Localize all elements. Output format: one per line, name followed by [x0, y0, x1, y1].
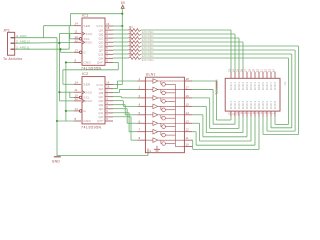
- IC1 pin QD (3): [98, 38, 113, 44]
- svg-text:220 Ohm: 220 Ohm: [142, 55, 154, 58]
- wire IC2 QD to ULN in4: [113, 101, 137, 107]
- display top pin 16: [241, 69, 244, 79]
- ULN1 common rail: [175, 84, 184, 146]
- svg-text:16: 16: [241, 69, 244, 73]
- svg-text:6: 6: [106, 50, 108, 54]
- display top pin 23: [269, 69, 272, 79]
- display internal name col 9 top: [261, 82, 265, 91]
- svg-text:23: 23: [269, 69, 272, 73]
- IC2 pin QA (15): [99, 85, 113, 91]
- svg-text:R4: R4: [129, 37, 133, 41]
- display top pin 19: [253, 69, 256, 79]
- ULN1 driver 7 (pins 7/12): [137, 128, 192, 137]
- svg-text:14: 14: [75, 22, 79, 26]
- IC1 pin QB (1): [99, 30, 113, 36]
- resistor R2: [129, 29, 154, 38]
- wire 5V drop: [69, 14, 71, 26]
- svg-text:12: 12: [229, 112, 232, 116]
- wire ARD11 vertical: [68, 26, 70, 50]
- display right grey pin name: [283, 81, 287, 85]
- IC2 pin G (13): [74, 107, 86, 113]
- svg-text:9: 9: [106, 117, 108, 121]
- wire ULN1 out4 to display: [192, 106, 243, 132]
- wire GND from JP1 pin3: [15, 37, 57, 39]
- wire IC1 QH to R8: [113, 57, 129, 59]
- display top pin 15: [237, 69, 240, 79]
- ic box IC1: [82, 18, 105, 65]
- display internal name col 8 bottom: [257, 100, 261, 109]
- junction: [56, 120, 58, 122]
- display internal name col 5 top: [245, 82, 249, 91]
- svg-text:20: 20: [257, 69, 260, 73]
- ULN1 driver 8 (pins 8/11): [137, 136, 192, 145]
- wire column 3 to display top: [141, 38, 239, 72]
- svg-text:220 Ohm: 220 Ohm: [142, 39, 154, 42]
- IC1 pin QF (5): [99, 46, 113, 52]
- svg-text:To Arduino: To Arduino: [3, 57, 22, 61]
- wire IC2 QH to ULN in8: [113, 117, 137, 140]
- wire IC2 VCC: [113, 84, 122, 86]
- svg-text:14: 14: [186, 111, 190, 115]
- ULN1 internal ground glyph: [154, 146, 160, 151]
- IC2 pin QB (1): [99, 89, 113, 95]
- wire column 1 to display top: [141, 30, 231, 72]
- IC1 pin QE (4): [99, 42, 113, 48]
- connector JP1 pin blade 2: [11, 42, 15, 44]
- svg-text:2: 2: [106, 93, 108, 97]
- wire IC1 QG to R7: [113, 53, 129, 55]
- svg-text:8: 8: [75, 58, 77, 62]
- svg-text:14: 14: [233, 69, 236, 73]
- display internal name col 2 top: [233, 82, 237, 91]
- svg-text:R4C8: R4C8: [273, 82, 277, 91]
- display internal name col 5 bottom: [245, 100, 249, 109]
- display internal name col 6 bottom: [249, 100, 253, 109]
- ULN1 driver 3 (pins 3/16): [137, 94, 192, 103]
- pin number 3: [16, 34, 18, 38]
- svg-text:7: 7: [106, 54, 108, 58]
- wire IC2 RCK: [59, 100, 74, 102]
- svg-text:24: 24: [273, 69, 276, 73]
- svg-text:3: 3: [106, 97, 108, 101]
- wire IC2 QG to ULN in7: [113, 113, 137, 132]
- svg-text:R7: R7: [129, 49, 133, 53]
- svg-text:11: 11: [233, 112, 236, 115]
- display internal name col 8 top: [257, 82, 261, 91]
- svg-text:21: 21: [261, 69, 264, 73]
- label IC2: [82, 72, 88, 76]
- svg-text:220 Ohm: 220 Ohm: [142, 59, 154, 62]
- pin number 2: [16, 39, 18, 43]
- IC1 pin QA (15): [99, 26, 113, 32]
- IC2 pin QG (6): [98, 109, 113, 115]
- svg-text:G: G: [83, 51, 86, 55]
- svg-text:9: 9: [106, 58, 108, 62]
- svg-text:18: 18: [249, 69, 252, 73]
- IC2 pin QH (7): [98, 113, 113, 119]
- display top pin 13: [229, 69, 232, 79]
- IC1 pin SER (14): [74, 22, 91, 28]
- display internal name col 4 top: [241, 82, 245, 91]
- wire G1 tap vertical: [60, 49, 62, 52]
- svg-text:220 Ohm: 220 Ohm: [142, 47, 154, 50]
- svg-text:220 Ohm: 220 Ohm: [142, 31, 154, 34]
- wire stub vertical x43: [43, 26, 45, 38]
- ULN1 pin COM (10): [184, 143, 192, 147]
- svg-text:IC1: IC1: [82, 13, 88, 17]
- svg-text:TC2088H: TC2088H: [215, 79, 219, 95]
- label display name: [215, 79, 219, 95]
- node ARD13 label: [20, 39, 30, 43]
- label ULN1: [146, 73, 156, 77]
- junction: [58, 91, 60, 93]
- wire ARD11 from JP1 pin1: [15, 48, 69, 50]
- svg-text:R3: R3: [129, 33, 133, 37]
- IC1 pin QG (6): [98, 50, 113, 56]
- display internal name col 7 bottom: [253, 100, 257, 109]
- IC1 pin QH (7): [98, 54, 113, 60]
- wire to IC1 SCK: [59, 33, 74, 35]
- svg-text:SCK: SCK: [85, 90, 93, 94]
- value 74LS595N IC2: [81, 125, 102, 129]
- svg-text:1: 1: [106, 30, 108, 34]
- IC1 pin GND (8): [74, 58, 92, 64]
- wire IC1 QA to R1: [113, 29, 129, 31]
- svg-text:1: 1: [106, 89, 108, 93]
- IC1 pin G (13): [74, 48, 86, 54]
- IC1 pin SCK (11): [74, 30, 93, 36]
- display bottom pin 8: [245, 111, 248, 117]
- IC2 pin GND (8): [74, 117, 92, 123]
- wire to IC1 G: [61, 51, 75, 53]
- display internal name col 3 bottom: [237, 100, 241, 109]
- wire ULN1 out8 to display: [192, 117, 259, 150]
- wire ULN1 out1 to display: [192, 81, 231, 120]
- display internal name col 3 top: [237, 82, 241, 91]
- wire SCL1 branch: [70, 34, 74, 39]
- node ARD11 label: [20, 45, 30, 49]
- svg-text:12: 12: [186, 128, 190, 132]
- svg-text:4: 4: [139, 102, 141, 106]
- display internal name col 11 top: [269, 82, 273, 91]
- display top pin 20: [257, 69, 260, 79]
- resistor R1: [129, 25, 154, 34]
- display bottom pin 3: [265, 111, 268, 117]
- svg-text:220 Ohm: 220 Ohm: [142, 35, 154, 38]
- ULN1 driver 1 (pins 1/18): [137, 77, 192, 86]
- svg-text:JP1: JP1: [3, 28, 10, 32]
- wire SCL2 branch: [70, 92, 74, 97]
- display internal name col 6 top: [249, 82, 253, 91]
- display internal name col 1 bottom: [229, 100, 233, 109]
- display bottom pin 12: [229, 111, 232, 117]
- ULN1 driver 4 (pins 4/15): [137, 102, 192, 111]
- svg-text:15: 15: [106, 85, 110, 89]
- wire 5V stem: [121, 8, 123, 84]
- svg-text:2: 2: [106, 34, 108, 38]
- svg-text:16: 16: [186, 94, 190, 98]
- connector JP1 outline: [8, 32, 15, 55]
- wire GND to ULN pin9: [57, 153, 148, 156]
- label JP1: [3, 28, 10, 32]
- svg-text:VA: VA: [283, 81, 287, 85]
- wire IC1 QH* cascade: [63, 62, 118, 84]
- IC2 pin VCC (16): [96, 81, 113, 87]
- junction: [65, 110, 67, 112]
- connector JP1 pin blade 1: [11, 48, 15, 50]
- wire ULN1 out7 to display: [192, 117, 255, 145]
- svg-text:7: 7: [139, 128, 141, 132]
- IC2 pin QH* (9): [97, 117, 113, 123]
- svg-text:IC2: IC2: [82, 72, 88, 76]
- wire column 7 wrap to display bottom: [141, 54, 292, 128]
- svg-text:RCK: RCK: [85, 99, 93, 103]
- svg-text:2: 2: [139, 85, 141, 89]
- display bottom pin 5: [257, 111, 260, 117]
- display internal name col 12 top: [273, 82, 277, 91]
- svg-text:22: 22: [265, 69, 268, 73]
- wire column 6 wrap to display bottom: [141, 50, 295, 131]
- svg-text:6: 6: [106, 109, 108, 113]
- wire ARD13 from JP1 pin2 to IC1 RCK: [15, 42, 74, 45]
- IC2 pin QE (4): [99, 101, 113, 107]
- label IC1: [82, 13, 88, 17]
- svg-text:SER: SER: [83, 24, 91, 28]
- display internal name col 10 bottom: [265, 100, 269, 109]
- wire column 5 wrap to display bottom: [141, 46, 298, 135]
- svg-text:4: 4: [106, 101, 108, 105]
- wire 5V top corridor: [70, 13, 122, 15]
- display bottom pin 10: [237, 111, 240, 117]
- svg-text:19: 19: [253, 69, 256, 73]
- svg-text:4: 4: [106, 42, 108, 46]
- svg-text:ULN1: ULN1: [146, 73, 156, 77]
- svg-text:7: 7: [106, 113, 108, 117]
- display internal name col 11 bottom: [269, 100, 273, 109]
- resistor R3: [129, 33, 154, 42]
- IC1 pin RCK (12): [74, 38, 93, 44]
- junction: [58, 42, 60, 44]
- display bottom pin 1: [273, 111, 276, 117]
- svg-text:GND: GND: [83, 61, 91, 65]
- wire IC2 SCK: [59, 91, 74, 93]
- svg-text:QH*: QH*: [97, 61, 104, 65]
- svg-text:74LS595N: 74LS595N: [81, 125, 102, 129]
- svg-text:74LS595N: 74LS595N: [81, 67, 102, 71]
- display bottom pin 4: [261, 111, 264, 117]
- display internal name col 2 bottom: [233, 100, 237, 109]
- wire IC1 QC to R3: [113, 37, 129, 39]
- svg-text:GND: GND: [83, 119, 91, 123]
- svg-text:13: 13: [229, 69, 232, 73]
- wire clock vertical: [58, 34, 60, 101]
- display top pin 17: [245, 69, 248, 79]
- svg-text:SCK: SCK: [85, 32, 93, 36]
- svg-text:5V: 5V: [121, 1, 126, 5]
- wire IC2 G: [66, 110, 74, 112]
- display top pin 22: [265, 69, 268, 79]
- display bottom pin 6: [253, 111, 256, 117]
- IC2 pin SCK (11): [74, 88, 93, 94]
- svg-text:17: 17: [186, 85, 190, 89]
- wire IC2 QB to ULN in2: [113, 89, 137, 92]
- IC1 pin QH* (9): [97, 58, 113, 64]
- wire column 8 wrap to display bottom: [141, 58, 289, 124]
- pin number 1: [16, 45, 18, 49]
- wire IC2 QA to ULN in1: [113, 81, 137, 89]
- wire IC1 QE to R5: [113, 45, 129, 47]
- svg-text:10: 10: [237, 112, 240, 116]
- display internal name col 1 top: [229, 82, 233, 91]
- svg-text:16: 16: [106, 81, 110, 85]
- value 74LS595N IC1: [81, 67, 102, 71]
- wire IC2 GND pin: [57, 120, 74, 122]
- svg-text:R5: R5: [129, 41, 133, 45]
- resistor R4: [129, 37, 154, 46]
- svg-text:3: 3: [106, 38, 108, 42]
- display bottom pin 9: [241, 111, 244, 117]
- junction: [121, 13, 123, 15]
- svg-text:11: 11: [75, 30, 78, 34]
- wire IC2 QC to ULN in3: [113, 97, 137, 98]
- resistor R8: [129, 53, 154, 62]
- svg-text:RCK: RCK: [85, 41, 93, 45]
- IC1 pin SCL (10): [74, 35, 90, 41]
- IC2 pin QC (2): [98, 93, 113, 99]
- wire IC2 QF to ULN in6: [113, 109, 137, 124]
- junction: [65, 61, 67, 63]
- display internal name col 9 bottom: [261, 100, 265, 109]
- ULN1 driver 6 (pins 6/13): [137, 119, 192, 128]
- wire GND vertical rail: [56, 38, 58, 157]
- wire IC1 QB to R2: [113, 33, 129, 35]
- svg-text:QH*: QH*: [97, 119, 104, 123]
- svg-text:8: 8: [139, 136, 141, 140]
- svg-text:G: G: [83, 109, 86, 113]
- LED matrix display box: [225, 78, 280, 111]
- wire IC1 QF to R6: [113, 49, 129, 51]
- connector JP1 pin blade 3: [11, 37, 15, 39]
- svg-text:R2: R2: [129, 29, 133, 33]
- svg-text:220 Ohm: 220 Ohm: [142, 51, 154, 54]
- IC2 pin SER (14): [74, 80, 91, 86]
- wire IC1 VCC: [113, 25, 122, 27]
- svg-text:15: 15: [186, 102, 190, 106]
- svg-text:13: 13: [75, 48, 79, 52]
- svg-text:9: 9: [150, 149, 152, 153]
- svg-text:10: 10: [186, 143, 190, 147]
- wire IC2 SER: [63, 83, 74, 85]
- svg-text:3: 3: [139, 94, 141, 98]
- svg-text:10: 10: [75, 35, 79, 39]
- svg-text:5: 5: [139, 111, 141, 115]
- svg-text:R1: R1: [129, 25, 133, 29]
- svg-text:15: 15: [237, 69, 240, 73]
- svg-text:17: 17: [245, 69, 248, 73]
- display bottom pin 7: [249, 111, 252, 117]
- ground GND symbol: [52, 157, 61, 164]
- IC2 pin SCL (10): [74, 93, 90, 99]
- ULN1 driver 2 (pins 2/17): [137, 85, 192, 94]
- junction: [59, 48, 61, 50]
- resistor R6: [129, 45, 154, 54]
- svg-text:10: 10: [75, 93, 79, 97]
- svg-text:5: 5: [106, 46, 108, 50]
- wire ULN1 out5 to display: [192, 115, 247, 137]
- svg-text:R8: R8: [129, 53, 133, 57]
- svg-text:220 Ohm: 220 Ohm: [142, 43, 154, 46]
- svg-text:11: 11: [75, 88, 78, 92]
- resistor R7: [129, 49, 154, 58]
- wire IC2 QE to ULN in5: [113, 105, 137, 115]
- wire IC1 QD to R4: [113, 41, 129, 43]
- IC2 pin QF (5): [99, 105, 113, 111]
- IC2 pin RCK (12): [74, 97, 93, 103]
- svg-text:12: 12: [75, 97, 79, 101]
- junction: [121, 25, 123, 27]
- wire ULN1 out3 to display: [192, 98, 239, 128]
- svg-text:13: 13: [75, 107, 79, 111]
- wire ULN1 out6 to display: [192, 117, 251, 141]
- display top pin 21: [261, 69, 264, 79]
- display top pin 14: [233, 69, 236, 79]
- display internal name col 12 bottom: [273, 100, 277, 109]
- ULN1 driver 5 (pins 5/14): [137, 111, 192, 120]
- svg-text:R6: R6: [129, 45, 133, 49]
- wire ULN1 out2 to display: [192, 89, 235, 124]
- display bottom pin 11: [233, 111, 236, 117]
- svg-text:8: 8: [75, 117, 77, 121]
- wire corridor to IC1 SER: [44, 25, 74, 27]
- svg-text:SER: SER: [83, 83, 91, 87]
- svg-text:13: 13: [186, 119, 190, 123]
- wire column 4 to display top: [141, 42, 243, 72]
- svg-text:11: 11: [186, 136, 189, 140]
- svg-text:12: 12: [75, 38, 79, 42]
- display internal name col 10 top: [265, 82, 269, 91]
- display internal name col 7 top: [253, 82, 257, 91]
- IC1 pin QC (2): [98, 34, 113, 40]
- display top pin 18: [249, 69, 252, 79]
- ULN1 pin GND (9): [148, 149, 152, 153]
- svg-text:16: 16: [106, 22, 110, 26]
- svg-text:1: 1: [139, 77, 141, 81]
- IC2 pin QD (3): [98, 97, 113, 103]
- display bottom pin 2: [269, 111, 272, 117]
- darlington array ULN1 box: [145, 77, 184, 153]
- resistor R5: [129, 41, 154, 50]
- svg-text:GND: GND: [52, 159, 61, 163]
- label To Arduino: [3, 57, 22, 61]
- display internal name col 4 bottom: [241, 100, 245, 109]
- wire column 2 to display top: [141, 34, 235, 72]
- wire GND branch vertical x65: [65, 62, 67, 121]
- display top pin 24: [273, 69, 276, 79]
- wire IC1 GND pin: [66, 61, 74, 63]
- node GND label: [20, 34, 27, 38]
- svg-text:18: 18: [186, 77, 190, 81]
- svg-text:6: 6: [139, 119, 141, 123]
- svg-text:R4C8: R4C8: [273, 100, 277, 109]
- ic box IC2: [82, 77, 105, 124]
- svg-text:14: 14: [75, 80, 79, 84]
- IC1 pin VCC (16): [96, 22, 113, 28]
- svg-text:15: 15: [106, 26, 110, 30]
- power 5V symbol: [121, 1, 126, 8]
- svg-text:5: 5: [106, 105, 108, 109]
